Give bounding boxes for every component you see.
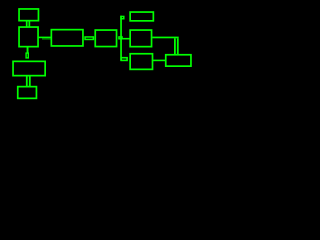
- block BR (far-right box): [166, 55, 191, 66]
- connector loop S1 BA to BB: [85, 37, 93, 40]
- connector flag S4 (near BM box): [121, 58, 127, 61]
- connector double line down to BR: [174, 38, 179, 54]
- connector C3 double line B3 to B4: [26, 76, 31, 87]
- block BM (box below MR): [130, 54, 152, 70]
- block BA (middle wide box): [51, 30, 83, 46]
- connector loop S3 junction: [119, 37, 122, 39]
- wire W3 S3 to MR box: [122, 38, 130, 40]
- connector C1 double line B1 to B2: [26, 21, 30, 27]
- block MR (middle-right box): [130, 30, 151, 47]
- block B4 (bottom-left box): [18, 87, 37, 99]
- wire W2 B2 bottom down: [27, 47, 29, 53]
- block B1 (top-left box): [19, 9, 38, 21]
- connector flag S2 (near TR box): [121, 16, 124, 18]
- wire V1 vertical wire from flag S2 down to flag S4: [120, 16, 122, 61]
- block BB (middle box): [95, 30, 116, 47]
- wire W4 MR right to far-right corner: [152, 37, 178, 39]
- block B2 (left column second box): [19, 27, 38, 47]
- connector loop L2 end of W2 near B3: [26, 53, 28, 58]
- wire W1 B2 to BA with hollow head: [39, 37, 52, 40]
- block B3 (lower-left wide box): [13, 61, 45, 75]
- wire W5 BM right to BR left: [152, 60, 165, 62]
- block TR (top-right box): [130, 12, 153, 21]
